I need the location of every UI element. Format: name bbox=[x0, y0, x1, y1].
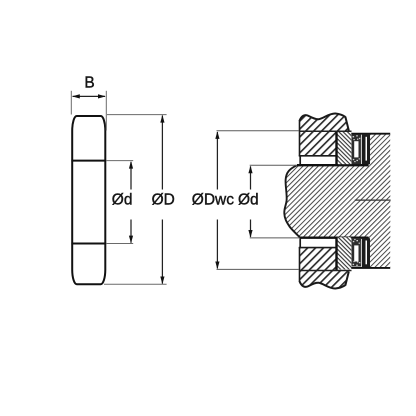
extension line B right bbox=[105, 91, 107, 131]
extension line Od top (left view) bbox=[106, 160, 133, 162]
gap closure line upper (shaft shoulder face) bbox=[299, 156, 301, 165]
svg-text:ØDwc: ØDwc bbox=[192, 192, 234, 209]
dimension line OD upper segment with arrow bbox=[161, 116, 163, 190]
lower block left edge bbox=[299, 247, 301, 282]
upper block right slant edge bbox=[345, 117, 349, 131]
upper washer top edge line bbox=[300, 130, 352, 132]
housing section hatch bbox=[370, 134, 390, 268]
upper block wavy top edge bbox=[300, 113, 346, 120]
upper roller window bbox=[354, 141, 358, 157]
dimension line Od right lower segment with arrow bbox=[250, 220, 252, 237]
extension line Od bottom (left view) bbox=[106, 243, 133, 245]
lower roller cage bbox=[352, 238, 362, 267]
extension line Od right top bbox=[250, 164, 297, 166]
housing top surface line bbox=[344, 133, 391, 135]
upper roller cage bbox=[352, 134, 362, 164]
dimension line B bbox=[73, 95, 105, 97]
lower roller window bbox=[354, 245, 358, 261]
dimension line ODwc lower segment with arrow bbox=[216, 220, 218, 269]
washer bore line top bbox=[71, 160, 106, 162]
lower cage speckles bbox=[353, 239, 361, 266]
upper washer left boundary line bbox=[335, 131, 337, 166]
extension line ODwc top bbox=[217, 130, 300, 132]
dimension line Od upper segment with arrow bbox=[130, 162, 132, 190]
arrowhead B right bbox=[98, 94, 106, 98]
svg-text:ØD: ØD bbox=[152, 192, 175, 209]
upper block bottom edge bbox=[299, 155, 336, 157]
shaft break edge (wavy) bbox=[284, 165, 301, 238]
shaft section hatch bbox=[284, 165, 390, 238]
lower block right slant edge bbox=[345, 272, 349, 286]
arrowhead B left bbox=[72, 94, 80, 98]
dimension line ODwc upper segment with arrow bbox=[216, 132, 218, 190]
lower housing washer slit bbox=[366, 241, 368, 265]
upper housing washer (dark) bbox=[362, 134, 370, 165]
housing bottom surface line bbox=[344, 267, 391, 269]
dimension line Od right upper segment with arrow bbox=[250, 166, 252, 189]
lower housing washer (dark) bbox=[362, 238, 370, 267]
joint line at shaft mid bbox=[355, 199, 391, 201]
extension line ODwc bottom bbox=[217, 268, 300, 270]
upper shoulder block hatch bbox=[300, 113, 349, 155]
upper left thrust washer hatch bbox=[338, 132, 352, 164]
lower left thrust washer hatch bbox=[338, 237, 352, 269]
extension line Od right bottom bbox=[250, 237, 300, 239]
washer bore line bottom bbox=[71, 243, 106, 245]
extension line OD top bbox=[107, 114, 167, 116]
dimension line Od lower segment with arrow bbox=[130, 220, 132, 243]
extension line B left bbox=[70, 91, 72, 115]
extension line OD bottom bbox=[104, 283, 167, 285]
shaft top surface line bbox=[297, 164, 369, 166]
upper block left edge bbox=[299, 120, 301, 156]
slit between lower cage and housing washer bbox=[361, 241, 362, 265]
washer outline bbox=[72, 116, 105, 284]
upper housing washer slit bbox=[366, 137, 368, 161]
lower washer bottom edge line bbox=[300, 270, 352, 272]
lower block top edge bbox=[299, 247, 336, 249]
lower shoulder block hatch bbox=[300, 248, 349, 289]
shaft bottom surface line bbox=[301, 237, 369, 239]
gap closure line lower (shaft shoulder face) bbox=[299, 239, 301, 248]
lower washer left boundary line bbox=[335, 237, 337, 271]
dimension line OD lower segment with arrow bbox=[161, 220, 163, 284]
svg-text:Ød: Ød bbox=[238, 192, 259, 209]
lower block wavy bottom edge bbox=[300, 281, 346, 288]
svg-text:B: B bbox=[84, 74, 94, 91]
upper cage speckles bbox=[353, 135, 361, 162]
svg-text:Ød: Ød bbox=[112, 192, 133, 209]
slit between upper cage and housing washer bbox=[361, 137, 362, 161]
